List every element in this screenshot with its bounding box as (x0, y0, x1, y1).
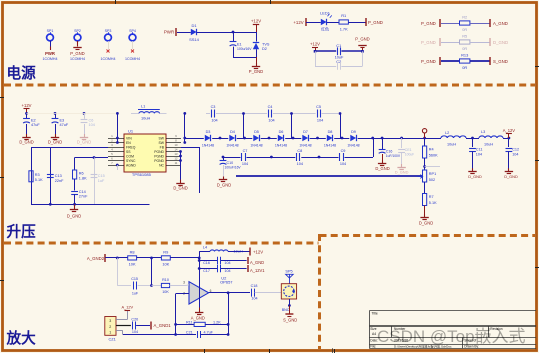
svg-text:502: 502 (429, 178, 435, 182)
svg-text:C7: C7 (243, 149, 248, 153)
svg-text:1N4148: 1N4148 (202, 144, 214, 148)
svg-text:D_GND: D_GND (19, 140, 33, 145)
svg-text:TVS: TVS (262, 43, 270, 47)
svg-text:D_GND: D_GND (217, 183, 231, 188)
svg-text:+12V: +12V (310, 41, 320, 46)
svg-text:PWR: PWR (45, 51, 55, 56)
svg-text:1uF/100V: 1uF/100V (386, 154, 401, 158)
svg-text:D_GND: D_GND (468, 174, 482, 179)
svg-text:C20: C20 (131, 318, 138, 322)
svg-text:C8: C8 (297, 149, 302, 153)
svg-text:RP1: RP1 (429, 172, 436, 176)
svg-text:R5: R5 (462, 34, 467, 39)
svg-text:A_12V1: A_12V1 (250, 268, 265, 273)
svg-text:0R: 0R (462, 65, 467, 70)
svg-text:D2: D2 (262, 47, 267, 51)
svg-text:D7: D7 (303, 130, 308, 134)
svg-text:PWR: PWR (164, 30, 174, 35)
svg-text:File:: File: (370, 345, 376, 349)
svg-text:升压: 升压 (7, 223, 37, 240)
svg-text:CSDN @Top嵌入式: CSDN @Top嵌入式 (377, 327, 526, 346)
svg-text:Size: Size (370, 327, 376, 331)
svg-text:EN: EN (126, 141, 131, 145)
svg-text:C15: C15 (98, 174, 105, 178)
svg-text:R6: R6 (79, 172, 84, 176)
svg-text:C13: C13 (55, 174, 62, 178)
svg-text:10K: 10K (129, 261, 136, 266)
svg-text:P_GND: P_GND (355, 36, 369, 41)
svg-text:R1: R1 (341, 13, 346, 18)
svg-text:COM: COM (126, 155, 134, 159)
svg-text:D_GND: D_GND (504, 174, 518, 179)
svg-text:SP1: SP1 (47, 29, 54, 33)
svg-text:R8: R8 (130, 250, 135, 255)
svg-text:104: 104 (224, 261, 230, 265)
svg-text:SS: SS (126, 150, 131, 154)
svg-text:100uF/16V: 100uF/16V (225, 166, 242, 170)
svg-text:D3: D3 (206, 130, 211, 134)
svg-text:PGND: PGND (154, 155, 164, 159)
svg-text:104: 104 (476, 153, 482, 157)
svg-text:C16: C16 (203, 261, 210, 265)
svg-text:1COMH4: 1COMH4 (43, 57, 58, 61)
svg-text:P_GND: P_GND (368, 20, 383, 25)
svg-text:D_GND: D_GND (173, 185, 187, 190)
svg-text:C1: C1 (336, 43, 341, 48)
svg-text:E3: E3 (60, 118, 65, 122)
svg-text:P_GND: P_GND (421, 21, 436, 26)
svg-text:红色: 红色 (321, 27, 329, 32)
svg-text:5.1K: 5.1K (429, 201, 437, 205)
svg-text:10K: 10K (162, 290, 169, 294)
svg-text:D_GND: D_GND (419, 221, 433, 226)
svg-text:AGND: AGND (126, 164, 136, 168)
svg-text:1N4148: 1N4148 (324, 144, 336, 148)
svg-text:C3: C3 (211, 105, 216, 109)
svg-text:BNC: BNC (282, 308, 290, 312)
svg-text:P_GND: P_GND (421, 40, 436, 45)
svg-text:C11: C11 (476, 148, 483, 152)
svg-text:VIN: VIN (126, 137, 132, 141)
svg-text:R2: R2 (462, 15, 467, 20)
svg-text:NC: NC (159, 164, 164, 168)
svg-text:1COMH4: 1COMH4 (101, 57, 116, 61)
svg-text:L4: L4 (203, 246, 207, 250)
svg-text:S_GND: S_GND (283, 318, 297, 323)
svg-text:SW: SW (159, 137, 165, 141)
svg-text:10uH: 10uH (484, 142, 493, 146)
svg-text:1N4148: 1N4148 (226, 144, 238, 148)
svg-text:1: 1 (109, 331, 111, 335)
svg-text:27nF: 27nF (79, 195, 88, 199)
svg-text:104: 104 (224, 269, 230, 273)
svg-text:5.1K: 5.1K (35, 178, 43, 182)
svg-text:+12V: +12V (293, 20, 303, 25)
svg-text:D_GND: D_GND (77, 140, 91, 145)
svg-text:A_GND: A_GND (191, 315, 205, 320)
svg-text:D1: D1 (191, 23, 197, 28)
svg-text:E1: E1 (237, 43, 242, 47)
svg-text:0R: 0R (462, 46, 467, 51)
svg-text:D_GND: D_GND (48, 140, 62, 145)
svg-text:P_GND: P_GND (421, 59, 436, 64)
svg-text:PGND: PGND (154, 159, 164, 163)
svg-text:A_12V: A_12V (121, 305, 133, 310)
svg-text:D9: D9 (351, 130, 356, 134)
svg-text:D4: D4 (230, 130, 235, 134)
svg-text:C17: C17 (203, 269, 210, 273)
svg-text:PGND: PGND (154, 150, 164, 154)
svg-text:104: 104 (340, 162, 346, 166)
svg-text:C18: C18 (251, 284, 258, 288)
svg-text:1N4148: 1N4148 (347, 144, 359, 148)
svg-text:C9: C9 (341, 149, 346, 153)
svg-text:CE1: CE1 (405, 148, 412, 152)
svg-text:4.7uF: 4.7uF (204, 331, 214, 335)
svg-text:1.2K: 1.2K (213, 320, 221, 324)
svg-text:A_GND2: A_GND2 (87, 256, 105, 261)
svg-text:D_GND: D_GND (493, 40, 508, 45)
svg-text:104: 104 (251, 297, 257, 301)
svg-text:3: 3 (183, 281, 185, 285)
svg-text:1.8K: 1.8K (79, 177, 87, 181)
svg-text:A4: A4 (372, 332, 376, 336)
svg-text:104: 104 (132, 330, 138, 334)
svg-text:1COMH4: 1COMH4 (70, 57, 85, 61)
svg-text:P_GND: P_GND (249, 69, 263, 74)
svg-text:A_GND: A_GND (250, 260, 264, 265)
svg-text:104: 104 (268, 118, 274, 122)
svg-text:1.7K: 1.7K (340, 27, 348, 32)
svg-text:SS14: SS14 (189, 37, 200, 42)
svg-text:U1: U1 (128, 128, 134, 133)
svg-text:1uF: 1uF (98, 179, 105, 183)
svg-text:SP5: SP5 (285, 270, 292, 274)
svg-text:1N4148: 1N4148 (299, 144, 311, 148)
svg-text:+12V: +12V (253, 249, 263, 254)
svg-text:C21: C21 (186, 331, 193, 335)
svg-text:104: 104 (89, 123, 95, 127)
svg-text:CZ1: CZ1 (109, 336, 116, 341)
svg-text:104: 104 (242, 162, 248, 166)
svg-text:47uF: 47uF (60, 123, 69, 127)
svg-text:47uF: 47uF (31, 123, 40, 127)
svg-text:D_GND: D_GND (375, 166, 389, 171)
svg-text:放大: 放大 (6, 329, 37, 347)
svg-text:FB: FB (160, 146, 165, 150)
svg-text:3: 3 (109, 319, 111, 323)
svg-text:R11: R11 (186, 320, 193, 324)
svg-text:104: 104 (512, 153, 518, 157)
svg-text:+12V: +12V (22, 103, 32, 108)
svg-text:D6: D6 (279, 130, 284, 134)
svg-text:R10: R10 (162, 278, 169, 282)
svg-text:1N4148: 1N4148 (250, 144, 262, 148)
svg-text:560K: 560K (429, 154, 438, 158)
svg-text:SYNC: SYNC (126, 159, 136, 163)
svg-text:+12V: +12V (251, 19, 261, 24)
svg-text:D_GND: D_GND (395, 170, 409, 175)
svg-text:10uH: 10uH (447, 142, 456, 146)
svg-text:P_GND: P_GND (70, 51, 84, 56)
svg-text:D5: D5 (254, 130, 259, 134)
svg-text:C16: C16 (386, 150, 393, 154)
svg-text:0R: 0R (462, 27, 467, 32)
svg-text:A_GND1: A_GND1 (154, 323, 172, 328)
svg-text:D8: D8 (328, 130, 333, 134)
svg-text:C5: C5 (316, 105, 321, 109)
svg-text:C10: C10 (227, 161, 234, 165)
svg-text:SW: SW (159, 141, 165, 145)
svg-text:D_GND: D_GND (67, 214, 81, 219)
svg-text:22nF: 22nF (55, 179, 64, 183)
svg-text:R13: R13 (461, 53, 468, 58)
svg-text:L3: L3 (481, 130, 485, 134)
svg-text:A_12V: A_12V (503, 128, 516, 133)
svg-text:1uF: 1uF (132, 291, 139, 295)
svg-text:2: 2 (109, 325, 111, 329)
svg-text:104: 104 (211, 118, 217, 122)
svg-text:C6: C6 (89, 118, 94, 122)
svg-text:104: 104 (317, 118, 323, 122)
svg-text:10uH: 10uH (141, 116, 150, 121)
svg-text:C12: C12 (512, 148, 519, 152)
svg-text:电源: 电源 (7, 64, 37, 82)
svg-text:S_GND: S_GND (493, 59, 508, 64)
svg-text:C14: C14 (79, 190, 86, 194)
svg-text:FREQ: FREQ (126, 146, 136, 150)
svg-text:C4: C4 (268, 105, 273, 109)
svg-text:R3: R3 (35, 173, 40, 177)
svg-text:SP3: SP3 (105, 29, 112, 33)
svg-text:1COMH4: 1COMH4 (125, 57, 140, 61)
svg-text:R4: R4 (429, 148, 434, 152)
svg-text:OP657: OP657 (220, 280, 233, 285)
svg-text:L1: L1 (141, 104, 145, 109)
svg-text:100u/16V: 100u/16V (237, 47, 252, 51)
svg-text:E2: E2 (31, 118, 36, 122)
svg-text:R9: R9 (163, 250, 168, 255)
svg-text:100uF: 100uF (405, 153, 414, 157)
svg-text:10K: 10K (162, 261, 169, 266)
svg-text:L2: L2 (445, 131, 449, 135)
svg-text:A_GND: A_GND (493, 21, 508, 26)
svg-text:1N4148: 1N4148 (275, 144, 287, 148)
svg-text:104: 104 (297, 162, 303, 166)
svg-text:Title: Title (372, 312, 378, 316)
svg-text:LED1: LED1 (320, 11, 330, 16)
svg-text:R7: R7 (429, 195, 434, 199)
svg-text:C15: C15 (131, 277, 138, 281)
svg-text:TPS61085: TPS61085 (132, 172, 152, 177)
